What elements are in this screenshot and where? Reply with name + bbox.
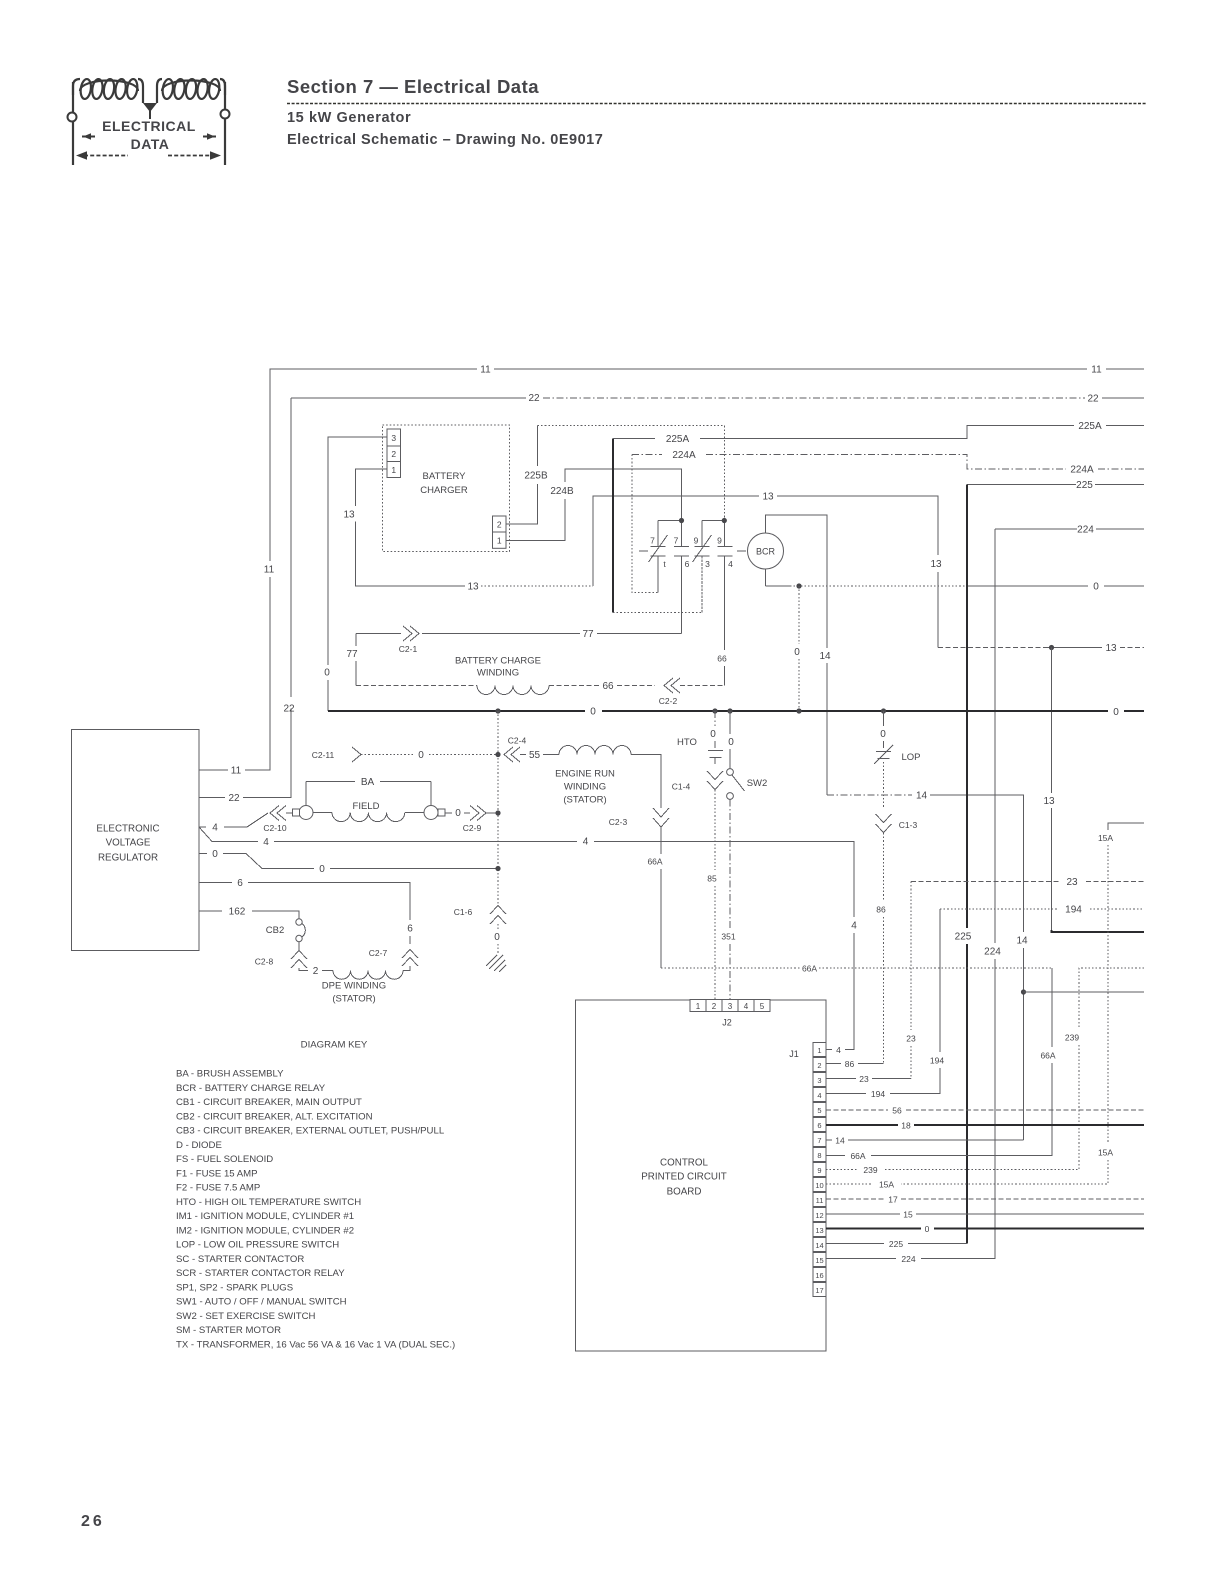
- wire 66A (engine run winding to J1-8): [647, 827, 1055, 1156]
- svg-text:C2-9: C2-9: [463, 823, 482, 833]
- svg-text:15 kW Generator: 15 kW Generator: [287, 110, 411, 126]
- svg-text:C2-7: C2-7: [369, 948, 388, 958]
- svg-text:22: 22: [1087, 394, 1099, 405]
- wire 22 (EVR to top bus, dashed): [199, 393, 1144, 804]
- battery charger terminal 1 (left): [387, 462, 401, 478]
- svg-text:14: 14: [1016, 936, 1028, 947]
- svg-text:J1: J1: [789, 1049, 799, 1059]
- svg-text:224B: 224B: [550, 486, 574, 497]
- junction: node 13 branch: [1049, 645, 1054, 650]
- circuit breaker CB2: [266, 919, 306, 951]
- svg-text:225A: 225A: [1078, 421, 1102, 432]
- svg-text:77: 77: [582, 629, 594, 640]
- svg-text:10: 10: [815, 1181, 823, 1190]
- wire 13 (to BCR area and right edge): [593, 492, 1144, 933]
- connector C2-8: [255, 951, 307, 969]
- wire 56 (J1-5 to right edge): [826, 1106, 1144, 1116]
- wire 85 (HTO to J2-2): [707, 790, 717, 999]
- svg-text:SCR - STARTER CONTACTOR RELAY: SCR - STARTER CONTACTOR RELAY: [176, 1268, 345, 1279]
- electronic voltage regulator box: [72, 730, 200, 951]
- svg-text:225A: 225A: [666, 434, 690, 445]
- wire 18 (J1-6 to right edge): [826, 1121, 1144, 1131]
- junction: BCR 0 drop: [796, 583, 801, 588]
- svg-text:8: 8: [817, 1151, 821, 1160]
- svg-text:SW1 - AUTO / OFF / MANUAL SWIT: SW1 - AUTO / OFF / MANUAL SWITCH: [176, 1297, 347, 1308]
- svg-text:15: 15: [815, 1256, 823, 1265]
- svg-text:14: 14: [835, 1136, 845, 1146]
- svg-text:C1-3: C1-3: [899, 820, 918, 830]
- svg-text:194: 194: [1065, 905, 1082, 916]
- svg-text:CHARGER: CHARGER: [420, 485, 468, 496]
- svg-text:225B: 225B: [524, 471, 548, 482]
- svg-text:85: 85: [707, 874, 717, 884]
- svg-text:56: 56: [892, 1106, 902, 1116]
- svg-text:224A: 224A: [672, 450, 696, 461]
- svg-text:ENGINE RUN: ENGINE RUN: [555, 769, 615, 780]
- svg-text:C2-4: C2-4: [508, 736, 527, 746]
- svg-text:4: 4: [728, 559, 733, 569]
- svg-text:3: 3: [728, 1002, 733, 1011]
- svg-text:C2-2: C2-2: [659, 696, 678, 706]
- svg-text:194: 194: [930, 1056, 944, 1066]
- svg-text:162: 162: [229, 907, 246, 918]
- svg-text:IM1 - IGNITION MODULE, CYLINDE: IM1 - IGNITION MODULE, CYLINDER #1: [176, 1211, 354, 1222]
- header logo: electrical-data transformer emblem: [73, 78, 225, 165]
- svg-text:66: 66: [602, 681, 614, 692]
- diagram key: [176, 1040, 455, 1351]
- svg-text:23: 23: [859, 1074, 869, 1084]
- switch SW2 (set exercise): [727, 711, 768, 799]
- wire 11 (EVR to top bus): [199, 365, 1144, 777]
- svg-text:0: 0: [710, 729, 716, 740]
- svg-text:66A: 66A: [647, 857, 662, 867]
- junction: bus / HTO leg: [712, 708, 717, 713]
- svg-text:J2: J2: [722, 1018, 732, 1028]
- connector C2-4: [504, 736, 526, 763]
- svg-text:7: 7: [817, 1136, 821, 1145]
- svg-text:12: 12: [815, 1211, 823, 1220]
- svg-text:239: 239: [1065, 1033, 1079, 1043]
- junction: ground leg / field 0: [495, 810, 500, 815]
- battery charger box: [383, 425, 510, 552]
- svg-text:13: 13: [343, 510, 355, 521]
- wire 239 at J1-9: [826, 1165, 878, 1175]
- connector C2-10: [263, 806, 286, 834]
- svg-text:15A: 15A: [879, 1180, 894, 1190]
- svg-text:0: 0: [494, 932, 500, 943]
- svg-text:26: 26: [81, 1513, 105, 1530]
- svg-text:66: 66: [717, 654, 727, 664]
- svg-text:3: 3: [705, 559, 710, 569]
- svg-text:1: 1: [391, 465, 396, 475]
- svg-text:22: 22: [283, 704, 295, 715]
- junction: IM1 coil node: [679, 518, 684, 523]
- svg-text:225: 225: [889, 1239, 903, 1249]
- svg-text:0: 0: [324, 668, 330, 679]
- wire 351 (SW2 to J2-3): [721, 800, 735, 1000]
- junction: ground leg / EVR 0: [495, 866, 500, 871]
- svg-text:C2-11: C2-11: [312, 750, 335, 760]
- svg-text:224: 224: [901, 1254, 915, 1264]
- connector C2-11 (0 stub to ground leg): [312, 747, 498, 762]
- svg-text:17: 17: [815, 1286, 823, 1295]
- svg-text:(STATOR): (STATOR): [332, 994, 375, 1005]
- svg-text:351: 351: [721, 932, 735, 942]
- svg-text:HTO: HTO: [677, 737, 697, 748]
- junction: wire 14 tap: [1021, 989, 1026, 994]
- svg-text:TX - TRANSFORMER, 16 Vac 56 VA: TX - TRANSFORMER, 16 Vac 56 VA & 16 Vac …: [176, 1339, 455, 1350]
- junction: bus / LOP leg: [881, 708, 886, 713]
- svg-text:C2-1: C2-1: [399, 644, 418, 654]
- wire 6 (EVR to DPE winding): [199, 878, 413, 944]
- connector C2-7: [369, 948, 418, 971]
- svg-text:CB1 - CIRCUIT BREAKER, MAIN OU: CB1 - CIRCUIT BREAKER, MAIN OUTPUT: [176, 1097, 362, 1108]
- svg-text:DPE WINDING: DPE WINDING: [322, 981, 386, 992]
- svg-text:55: 55: [529, 750, 541, 761]
- wire 23 (J1-3 to right edge): [872, 877, 1144, 1079]
- svg-text:66A: 66A: [850, 1151, 865, 1161]
- engine run winding (stator): [520, 746, 661, 806]
- battery charger terminal 1 (right): [493, 532, 507, 548]
- svg-text:1: 1: [696, 1002, 701, 1011]
- wire 0 (BCR to right edge): [766, 582, 1145, 712]
- wire 225A (IM2 to right edge): [613, 421, 1144, 613]
- svg-text:11: 11: [264, 565, 275, 576]
- battery charge winding (stator): [356, 656, 724, 707]
- svg-text:4: 4: [212, 823, 218, 834]
- svg-text:4: 4: [744, 1002, 749, 1011]
- svg-text:18: 18: [901, 1121, 911, 1131]
- ignition module IM2 (cylinder 2): [679, 518, 746, 686]
- svg-text:13: 13: [467, 582, 479, 593]
- svg-text:15A: 15A: [1098, 1148, 1113, 1158]
- wire 77 (battery charge winding to IM1): [346, 626, 681, 686]
- DPE winding (stator): [299, 966, 403, 1005]
- connector J2: [690, 1000, 770, 1028]
- svg-text:0: 0: [455, 808, 461, 819]
- svg-text:17: 17: [888, 1195, 898, 1205]
- svg-text:BOARD: BOARD: [667, 1187, 702, 1198]
- control printed circuit board: [576, 1000, 827, 1351]
- svg-text:CB2 - CIRCUIT BREAKER, ALT. EX: CB2 - CIRCUIT BREAKER, ALT. EXCITATION: [176, 1111, 373, 1122]
- wire 4 label at J1-1: [826, 1045, 854, 1055]
- ignition module IM1 (cylinder 1): [639, 521, 690, 634]
- svg-text:9: 9: [717, 536, 722, 546]
- svg-text:REGULATOR: REGULATOR: [98, 853, 158, 864]
- svg-text:VOLTAGE: VOLTAGE: [106, 838, 151, 849]
- svg-text:0: 0: [728, 737, 734, 748]
- IM2 lead dash to BCR: [737, 550, 746, 552]
- svg-text:6: 6: [407, 924, 413, 935]
- svg-text:0: 0: [794, 647, 800, 658]
- svg-text:FIELD: FIELD: [353, 801, 380, 812]
- wire 86 (LOP to J1-2): [858, 833, 886, 1064]
- ground symbol: [486, 955, 506, 972]
- svg-text:6: 6: [237, 878, 243, 889]
- svg-text:3: 3: [391, 433, 396, 443]
- svg-text:BCR: BCR: [756, 547, 776, 557]
- svg-text:86: 86: [845, 1059, 855, 1069]
- svg-text:9: 9: [694, 536, 699, 546]
- wire 15 (J1-12 to right edge): [826, 1210, 1144, 1220]
- svg-text:C1-6: C1-6: [454, 907, 473, 917]
- junction: IM2 coil node: [722, 518, 727, 523]
- svg-text:WINDING: WINDING: [477, 668, 519, 679]
- svg-text:SM - STARTER MOTOR: SM - STARTER MOTOR: [176, 1325, 281, 1336]
- svg-text:C1-4: C1-4: [672, 782, 691, 792]
- svg-text:225: 225: [1076, 480, 1093, 491]
- svg-text:14: 14: [815, 1241, 823, 1250]
- junction: bus / SW2 leg: [727, 708, 732, 713]
- svg-text:2: 2: [497, 520, 502, 530]
- wire 13 (charger terminal 1 loop): [343, 469, 593, 593]
- connector C1-3: [876, 814, 918, 833]
- svg-text:7: 7: [650, 536, 655, 546]
- wire 4 (EVR to J1-1): [199, 827, 857, 1050]
- svg-text:CB3 - CIRCUIT BREAKER, EXTERNA: CB3 - CIRCUIT BREAKER, EXTERNAL OUTLET, …: [176, 1126, 445, 1137]
- svg-text:15: 15: [903, 1210, 913, 1220]
- svg-text:3: 3: [817, 1076, 821, 1085]
- svg-text:4: 4: [583, 837, 589, 848]
- svg-text:0: 0: [880, 729, 886, 740]
- wire 224B (charger terminal 1 to IM1): [506, 469, 682, 541]
- wire 0 ground bus: [328, 707, 1144, 719]
- svg-text:4: 4: [851, 921, 857, 932]
- svg-text:F2 - FUSE 7.5 AMP: F2 - FUSE 7.5 AMP: [176, 1183, 260, 1194]
- wire 0 (charger terminal 3 to ground bus): [324, 437, 387, 711]
- switch HTO (high oil temperature): [677, 711, 723, 764]
- wire 224 (right edge to J1-15): [921, 525, 1144, 1259]
- battery charger terminal 2 (right): [493, 516, 507, 532]
- wire 0 ground leg with C1-6: [454, 711, 498, 917]
- svg-text:BATTERY: BATTERY: [423, 471, 467, 482]
- junction: bus / BCR 0 drop: [796, 708, 801, 713]
- svg-text:239: 239: [863, 1165, 877, 1175]
- svg-text:15A: 15A: [1098, 833, 1113, 843]
- wire 224 at J1-15: [826, 1254, 916, 1264]
- wire 17 (J1-11 to right edge): [826, 1195, 1144, 1205]
- wire 86 at J1-2: [826, 1059, 884, 1069]
- wire 14 at J1-7: [826, 1136, 1024, 1146]
- svg-text:66A: 66A: [1040, 1051, 1055, 1061]
- wire 239 (right edge to J1-9): [884, 968, 1144, 1170]
- svg-text:5: 5: [817, 1106, 821, 1115]
- svg-text:11: 11: [816, 1196, 824, 1205]
- connector C2-9: [445, 806, 498, 834]
- svg-text:13: 13: [1043, 796, 1055, 807]
- svg-text:14: 14: [819, 651, 831, 662]
- svg-text:194: 194: [871, 1089, 885, 1099]
- svg-text:77: 77: [346, 649, 358, 660]
- connector C2-1: [403, 626, 419, 641]
- svg-text:4: 4: [817, 1091, 821, 1100]
- svg-text:224: 224: [984, 947, 1001, 958]
- wire 15A at J1-10: [826, 1180, 894, 1190]
- svg-text:D - DIODE: D - DIODE: [176, 1140, 222, 1151]
- wire 162 (EVR to CB2): [199, 907, 299, 919]
- svg-text:13: 13: [815, 1226, 823, 1235]
- svg-text:6: 6: [817, 1121, 821, 1130]
- svg-text:BA - BRUSH ASSEMBLY: BA - BRUSH ASSEMBLY: [176, 1069, 284, 1080]
- svg-text:BATTERY CHARGE: BATTERY CHARGE: [455, 656, 541, 667]
- svg-text:2: 2: [817, 1061, 821, 1070]
- svg-text:4: 4: [263, 837, 269, 848]
- wire 224A (IM1 to right edge): [632, 450, 1144, 593]
- junction: ground leg / C2-11 line: [495, 752, 500, 757]
- svg-text:22: 22: [528, 393, 540, 404]
- svg-text:BCR - BATTERY CHARGE RELAY: BCR - BATTERY CHARGE RELAY: [176, 1083, 326, 1094]
- battery charger terminal 2 (left): [387, 446, 401, 462]
- svg-text:DIAGRAM KEY: DIAGRAM KEY: [301, 1040, 368, 1051]
- connector C1-6: [490, 906, 506, 925]
- svg-text:LOP - LOW OIL PRESSURE SWITCH: LOP - LOW OIL PRESSURE SWITCH: [176, 1240, 339, 1251]
- svg-text:23: 23: [906, 1034, 916, 1044]
- field winding: [313, 801, 424, 822]
- svg-text:0: 0: [212, 849, 218, 860]
- svg-text:6: 6: [685, 559, 690, 569]
- connector J1: [789, 1043, 826, 1297]
- wire 194 (J1-4 to right edge): [890, 905, 1144, 1094]
- svg-text:WINDING: WINDING: [564, 782, 606, 793]
- wire 225 (right edge to J1-14): [908, 480, 1144, 1244]
- svg-text:ELECTRONIC: ELECTRONIC: [96, 824, 159, 835]
- svg-text:1: 1: [497, 536, 502, 546]
- svg-text:IM2 - IGNITION MODULE, CYLINDE: IM2 - IGNITION MODULE, CYLINDER #2: [176, 1225, 354, 1236]
- svg-text:22: 22: [228, 793, 240, 804]
- svg-text:7: 7: [674, 536, 679, 546]
- connector C1-4: [672, 771, 723, 792]
- switch LOP (low oil pressure): [874, 711, 921, 807]
- svg-text:86: 86: [876, 905, 886, 915]
- battery charger terminal 3: [387, 429, 401, 446]
- svg-text:2: 2: [313, 966, 319, 977]
- svg-text:2: 2: [712, 1002, 717, 1011]
- wire 66A at J1-8: [826, 1151, 866, 1161]
- svg-text:224A: 224A: [1070, 465, 1094, 476]
- svg-text:C2-10: C2-10: [263, 823, 286, 833]
- svg-text:0: 0: [590, 707, 596, 718]
- svg-text:13: 13: [762, 492, 774, 503]
- wire 4 (EVR to field via C2-10): [199, 813, 268, 834]
- svg-text:Electrical Schematic – Drawing: Electrical Schematic – Drawing No. 0E901…: [287, 132, 603, 148]
- svg-text:0: 0: [1113, 707, 1119, 718]
- connector C2-3: [609, 780, 669, 827]
- relay BCR (battery charge relay): [748, 515, 828, 586]
- connector C2-2: [664, 678, 680, 693]
- wire 194 at J1-4: [826, 1089, 940, 1099]
- svg-text:13: 13: [1105, 643, 1117, 654]
- svg-text:225: 225: [955, 932, 972, 943]
- svg-text:9: 9: [817, 1166, 821, 1175]
- svg-text:5: 5: [760, 1002, 765, 1011]
- svg-text:11: 11: [231, 766, 242, 777]
- wire 225 at J1-14: [826, 1239, 903, 1249]
- svg-text:ELECTRICAL: ELECTRICAL: [102, 118, 196, 134]
- svg-text:SP1, SP2 - SPARK PLUGS: SP1, SP2 - SPARK PLUGS: [176, 1282, 293, 1293]
- svg-text:FS - FUEL SOLENOID: FS - FUEL SOLENOID: [176, 1154, 273, 1165]
- svg-text:66A: 66A: [802, 964, 817, 974]
- svg-text:PRINTED CIRCUIT: PRINTED CIRCUIT: [641, 1172, 726, 1183]
- svg-text:(STATOR): (STATOR): [563, 795, 606, 806]
- svg-text:HTO - HIGH OIL TEMPERATURE SWI: HTO - HIGH OIL TEMPERATURE SWITCH: [176, 1197, 361, 1208]
- svg-text:11: 11: [1091, 365, 1102, 376]
- wire 225B (charger terminal 2 to IM2): [506, 425, 724, 524]
- svg-text:CONTROL: CONTROL: [660, 1158, 708, 1169]
- svg-text:2: 2: [391, 449, 396, 459]
- svg-text:4: 4: [836, 1045, 841, 1055]
- svg-text:BA: BA: [361, 777, 375, 788]
- svg-text:LOP: LOP: [901, 752, 920, 763]
- svg-text:14: 14: [916, 791, 928, 802]
- svg-text:16: 16: [815, 1271, 823, 1280]
- junction: bus / C1-6 ground leg: [495, 708, 500, 713]
- svg-text:0: 0: [418, 750, 424, 761]
- svg-text:SC - STARTER CONTACTOR: SC - STARTER CONTACTOR: [176, 1254, 304, 1265]
- wire 23 at J1-3: [826, 1074, 911, 1084]
- svg-text:0: 0: [1093, 582, 1099, 593]
- IM1 lead dash: [639, 550, 648, 552]
- svg-text:0: 0: [319, 864, 325, 875]
- svg-text:F1 - FUSE 15 AMP: F1 - FUSE 15 AMP: [176, 1168, 258, 1179]
- brush assembly BA: [286, 777, 445, 820]
- svg-text:13: 13: [930, 559, 942, 570]
- svg-text:CB2: CB2: [266, 925, 284, 936]
- svg-text:1: 1: [817, 1046, 821, 1055]
- svg-text:SW2 - SET EXERCISE SWITCH: SW2 - SET EXERCISE SWITCH: [176, 1311, 316, 1322]
- svg-text:C2-8: C2-8: [255, 957, 274, 967]
- svg-text:23: 23: [1066, 877, 1078, 888]
- wire 15A (right edge to J1-10): [901, 823, 1144, 1184]
- svg-text:11: 11: [480, 365, 491, 376]
- wire 14 (BCR coil to J1-7): [819, 586, 1144, 1140]
- svg-text:C2-3: C2-3: [609, 817, 628, 827]
- svg-text:SW2: SW2: [747, 778, 768, 789]
- svg-text:224: 224: [1077, 525, 1094, 536]
- svg-text:DATA: DATA: [131, 136, 170, 152]
- svg-text:Section 7 — Electrical Data: Section 7 — Electrical Data: [287, 76, 539, 97]
- wire 0 (J1-13 to right edge): [826, 1224, 1144, 1234]
- wire 0 (EVR to ground leg): [199, 849, 498, 875]
- svg-text:0: 0: [925, 1224, 930, 1234]
